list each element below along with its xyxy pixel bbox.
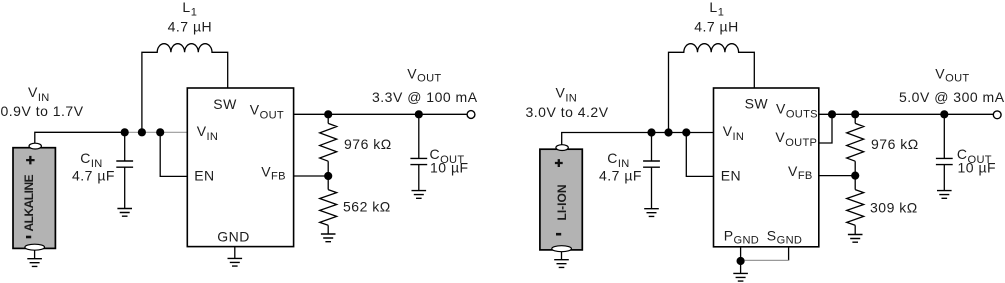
svg-text:SW: SW [213,96,237,112]
svg-text:VIN: VIN [28,84,50,104]
svg-text:3.3V @ 100 mA: 3.3V @ 100 mA [372,89,478,105]
svg-text:SW: SW [745,96,769,112]
svg-text:ALKALINE: ALKALINE [22,174,36,231]
svg-text:562 kΩ: 562 kΩ [343,199,391,215]
svg-text:EN: EN [194,168,214,184]
svg-text:309 kΩ: 309 kΩ [870,200,918,216]
svg-text:0.9V to 1.7V: 0.9V to 1.7V [1,103,84,119]
svg-text:10 µF: 10 µF [958,160,997,176]
svg-text:5.0V @ 300 mA: 5.0V @ 300 mA [899,89,1005,105]
svg-text:VOUT: VOUT [407,66,441,85]
svg-text:10 µF: 10 µF [430,160,469,176]
svg-text:GND: GND [217,228,250,244]
svg-text:4.7 µH: 4.7 µH [694,19,739,35]
svg-text:4.7 µF: 4.7 µF [599,168,642,184]
svg-text:4.7 µH: 4.7 µH [168,19,213,35]
svg-text:976 kΩ: 976 kΩ [871,136,919,152]
svg-text:L1: L1 [182,0,197,19]
svg-text:976 kΩ: 976 kΩ [344,136,392,152]
svg-text:LI-ION: LI-ION [555,185,569,221]
svg-text:VIN: VIN [556,85,578,105]
svg-text:3.0V to 4.2V: 3.0V to 4.2V [526,104,609,120]
svg-text:VOUT: VOUT [935,66,969,85]
svg-text:EN: EN [721,168,741,184]
svg-text:L1: L1 [709,0,724,19]
svg-text:4.7 µF: 4.7 µF [72,168,115,184]
